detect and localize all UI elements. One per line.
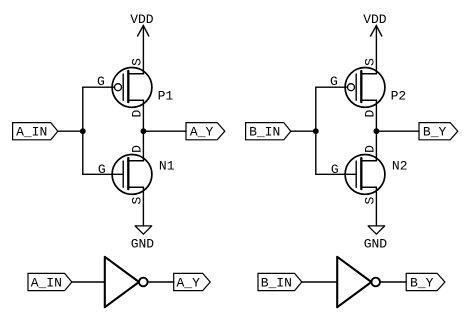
svg-text:P2: P2 — [391, 89, 407, 104]
global label A_Y — [186, 123, 225, 140]
wire N1 drain to output node — [142, 131, 144, 161]
svg-text:D: D — [363, 110, 378, 118]
wire P1 drain to output node — [142, 100, 144, 131]
junction output node A — [141, 128, 147, 134]
gate bubble P2 — [348, 84, 355, 91]
svg-text:B_Y: B_Y — [410, 275, 434, 290]
gate bubble P1 — [115, 84, 122, 91]
svg-text:S: S — [363, 197, 378, 205]
bottom contact stub P1 — [128, 99, 143, 101]
gate plate N2 — [355, 161, 357, 187]
channel bar N2 — [360, 158, 362, 189]
svg-text:GND: GND — [364, 236, 388, 251]
gate plate P2 — [355, 74, 357, 100]
junction input node A — [80, 128, 86, 134]
global label B_IN — [246, 123, 291, 140]
top contact stub N1 — [128, 160, 143, 162]
wire N1 source to GND — [142, 187, 144, 226]
wire N2 source to GND — [375, 187, 377, 226]
svg-text:S: S — [130, 197, 145, 205]
svg-text:A_IN: A_IN — [16, 124, 47, 139]
channel bar P2 — [360, 71, 362, 102]
transistor N1 (NMOS) — [98, 145, 175, 205]
wire inverter to B_Y — [380, 281, 406, 283]
svg-text:D: D — [130, 145, 145, 153]
svg-text:N2: N2 — [392, 158, 408, 173]
svg-text:N1: N1 — [159, 158, 175, 173]
svg-text:D: D — [363, 145, 378, 153]
bottom contact stub N1 — [128, 186, 143, 188]
svg-text:G: G — [331, 162, 339, 177]
svg-text:A_Y: A_Y — [190, 124, 214, 139]
channel bar N1 — [127, 158, 129, 189]
wire B_IN to inverter — [302, 281, 337, 283]
svg-text:VDD: VDD — [363, 12, 387, 27]
power symbol GND (B cell) — [364, 226, 388, 252]
svg-text:P1: P1 — [158, 89, 174, 104]
power symbol GND (A cell) — [131, 226, 155, 252]
global label A_Y (gate level) — [174, 273, 211, 290]
transistor P1 (PMOS) — [97, 58, 173, 118]
wire B_IN to input node — [291, 130, 316, 132]
global label B_IN (gate level) — [258, 273, 302, 290]
wire N1 gate to input bus — [83, 173, 123, 175]
wire N2 gate to input bus — [316, 173, 356, 175]
wire output node to A_Y — [143, 130, 186, 132]
wire P1 gate to input bus — [83, 86, 115, 88]
inverter triangle (B) — [337, 257, 371, 307]
svg-text:S: S — [130, 58, 145, 66]
svg-text:D: D — [130, 110, 145, 118]
channel bar P1 — [127, 71, 129, 102]
body circle N1 — [112, 155, 152, 195]
wire P2 gate to input bus — [316, 86, 348, 88]
svg-text:VDD: VDD — [130, 12, 154, 27]
inverter output bubble (B) — [371, 278, 380, 287]
power symbol VDD (A cell) — [130, 12, 154, 36]
svg-text:B_IN: B_IN — [249, 124, 280, 139]
gate plate N1 — [122, 161, 124, 187]
top contact stub P1 — [128, 73, 143, 75]
wire P2 drain to output node — [375, 100, 377, 131]
wire N2 drain to output node — [375, 131, 377, 161]
svg-text:B_IN: B_IN — [261, 275, 292, 290]
bottom contact stub P2 — [361, 99, 376, 101]
junction output node B — [374, 128, 380, 134]
inverter triangle (A) — [105, 257, 139, 307]
svg-text:GND: GND — [131, 236, 155, 251]
power symbol VDD (B cell) — [363, 12, 387, 36]
body circle P2 — [345, 68, 385, 108]
wire input bus vertical — [82, 87, 84, 174]
wire output node to B_Y — [376, 130, 419, 132]
body circle N2 — [345, 155, 385, 195]
global label A_IN — [13, 123, 58, 140]
wire inverter to A_Y — [148, 281, 174, 283]
top contact stub N2 — [361, 160, 376, 162]
transistor N2 (NMOS) — [331, 145, 408, 205]
transistor P2 (PMOS) — [330, 58, 406, 118]
junction input node B — [313, 128, 319, 134]
svg-text:A_IN: A_IN — [31, 275, 62, 290]
svg-text:S: S — [363, 58, 378, 66]
top contact stub P2 — [361, 73, 376, 75]
svg-text:A_Y: A_Y — [176, 275, 200, 290]
bottom contact stub N2 — [361, 186, 376, 188]
global label B_Y — [419, 123, 458, 140]
wire input bus vertical — [315, 87, 317, 174]
svg-text:B_Y: B_Y — [423, 124, 447, 139]
body circle P1 — [112, 68, 152, 108]
svg-text:G: G — [98, 162, 106, 177]
global label A_IN (gate level) — [28, 273, 72, 290]
gate plate P1 — [122, 74, 124, 100]
global label B_Y (gate level) — [406, 273, 445, 290]
wire A_IN to input node — [58, 130, 83, 132]
wire VDD to P2 source — [375, 26, 377, 74]
inverter output bubble (A) — [139, 278, 148, 287]
wire VDD to P1 source — [142, 26, 144, 74]
wire A_IN to inverter — [72, 281, 105, 283]
